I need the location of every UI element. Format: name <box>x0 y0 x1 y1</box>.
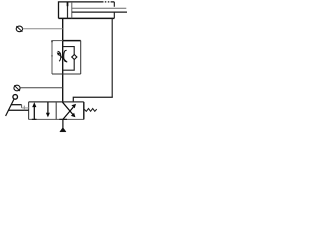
roller lever actuator <box>6 95 29 116</box>
valve right box: crossed arrow 1 (top port down-right) <box>63 102 73 114</box>
return spring <box>84 109 97 112</box>
wire: cap-end port main line (cylinder to valve, through flow control) <box>62 18 64 102</box>
directional valve 1V body <box>29 102 84 120</box>
valve left box: down arrow <box>47 102 49 113</box>
cylinder A1 body <box>59 2 115 19</box>
check valve (ball and seat) <box>71 55 77 60</box>
valve right box: crossed arrow 2 (bottom port up-right) <box>63 107 73 119</box>
cylinder piston <box>68 2 72 18</box>
wire: rod-end port line down <box>111 18 113 97</box>
exhaust/supply port line below valve <box>62 119 64 128</box>
connector symbol (circle with slash) top left <box>16 26 22 32</box>
throttle arrow head <box>57 52 61 55</box>
wire from mid-left connector to main line <box>20 87 63 89</box>
adjustable throttle <box>58 50 68 62</box>
cylinder piston rod <box>72 8 127 12</box>
connector symbol (circle with slash) mid left <box>14 85 20 91</box>
flow control internal bypass branch <box>63 47 74 71</box>
plunger lines into valve <box>21 105 23 108</box>
wire: horizontal run to valve port 2 <box>73 97 113 102</box>
flow control valve V1 enclosure (dashed) <box>52 40 81 74</box>
valve left box: up arrow <box>33 106 35 120</box>
supply triangle <box>60 128 66 132</box>
wire from top-left connector to main line <box>23 28 63 30</box>
